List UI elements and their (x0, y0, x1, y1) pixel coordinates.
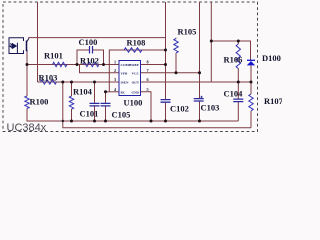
capacitor C103 plus mark (200, 96, 203, 99)
junction dots (26, 40, 253, 123)
svg-text:C100: C100 (79, 37, 98, 47)
svg-text:R103: R103 (39, 72, 58, 82)
svg-text:R107: R107 (264, 96, 282, 106)
svg-text:OUT: OUT (132, 81, 140, 85)
svg-text:C105: C105 (112, 109, 131, 119)
wire: C101 leads (94, 82, 96, 121)
svg-text:GND: GND (131, 90, 139, 94)
resistor R103 (41, 80, 57, 84)
capacitor C100 (series, vertical plates) (90, 46, 93, 54)
capacitor C101 (90, 103, 100, 106)
capacitor C102 (161, 100, 171, 103)
svg-text:R105: R105 (178, 26, 197, 36)
svg-text:VFB: VFB (121, 71, 129, 75)
svg-text:C104: C104 (224, 88, 244, 98)
svg-text:RC: RC (121, 90, 126, 94)
svg-text:ISEN: ISEN (121, 81, 129, 85)
wire: V1 R106/C104 column (237, 41, 239, 121)
svg-text:C103: C103 (201, 102, 220, 112)
resistor R105 (vertical) (174, 39, 178, 53)
wire: opto emitter down (26, 52, 28, 97)
svg-text:1: 1 (114, 60, 116, 65)
wire: pin2 branch (80, 65, 120, 73)
svg-text:UC384x: UC384x (7, 122, 47, 134)
resistor R101 (53, 62, 68, 66)
wire: R108 branch pin4 to VREF rail (109, 50, 165, 92)
diode D100 (247, 59, 255, 61)
resistor R106 (vertical) (236, 44, 240, 69)
wire: pin5 GND lead (141, 92, 152, 121)
wire: opto collector to VREF rail (28, 37, 165, 39)
wire: V2 D100/R107 column (250, 65, 252, 128)
wire: W1 top wire to D100 (211, 41, 250, 60)
wire: C100 branch (77, 50, 104, 65)
svg-text:R104: R104 (73, 86, 93, 96)
wire: VREF rail x=165.5 with C102 gap (165, 2, 167, 121)
svg-text:8: 8 (147, 60, 149, 65)
resistor R102 (83, 62, 99, 66)
svg-text:4: 4 (114, 87, 117, 92)
svg-text:U100: U100 (124, 97, 143, 107)
optocoupler LED triangle (12, 43, 17, 49)
resistor R108 (124, 48, 142, 52)
capacitor C105 (101, 103, 111, 106)
wire: OUT wire pin6 (141, 81, 252, 83)
wire: C105 leads (105, 92, 107, 121)
svg-text:C101: C101 (80, 108, 99, 118)
wire: rail x=211.3 to OUT wire (210, 2, 212, 82)
svg-text:6: 6 (147, 77, 149, 82)
svg-text:VCC: VCC (132, 71, 140, 75)
svg-text:C102: C102 (170, 103, 189, 113)
optocoupler (9, 38, 29, 54)
wire: pin7 VCC wire (141, 72, 200, 74)
svg-text:3: 3 (114, 77, 116, 82)
wire: pin4 lead (106, 91, 120, 93)
wire: pin3 row from rail corner to IC (38, 81, 120, 83)
svg-text:5: 5 (147, 87, 149, 92)
wire: ground rail (27, 109, 238, 122)
capacitor C104 (233, 99, 243, 102)
capacitor C103 (194, 99, 204, 101)
resistor R104 (vertical) (69, 96, 73, 109)
svg-text:R100: R100 (30, 97, 49, 107)
wire: sense wire to R107 (63, 82, 251, 128)
svg-text:VREF: VREF (130, 63, 139, 67)
resistor R100 (vertical) (25, 96, 29, 108)
wire: rail from top border down to R103 corner (37, 2, 39, 82)
wire: main COMP wire (27, 64, 119, 66)
svg-text:R102: R102 (80, 55, 99, 65)
wire: R105 leads (175, 38, 177, 73)
op-amp/PWM IC U100 box (119, 61, 141, 96)
resistor R107 (vertical) (249, 94, 253, 111)
svg-text:7: 7 (147, 68, 149, 73)
svg-text:2: 2 (114, 68, 116, 73)
wire: R104 leads (71, 82, 73, 121)
module boundary dashed box (3, 2, 258, 132)
svg-text:R108: R108 (127, 37, 146, 47)
svg-text:R101: R101 (44, 50, 63, 60)
svg-text:D100: D100 (262, 53, 281, 63)
wire: VCC rail x=199.5 with C103 gap (199, 2, 201, 121)
svg-text:R106: R106 (224, 54, 243, 64)
wire: pin8 lead (141, 64, 166, 66)
